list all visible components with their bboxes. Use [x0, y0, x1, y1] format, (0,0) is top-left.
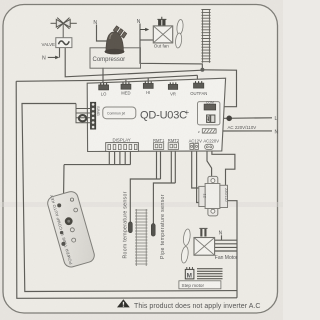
wire AC220V right loop	[212, 150, 235, 186]
evaporator coil	[135, 209, 148, 266]
wire valve left pin	[59, 48, 61, 58]
label Step motor	[179, 281, 221, 289]
valve 4-way symbol	[51, 18, 77, 38]
wire bus drop OUTFAN	[196, 75, 198, 83]
compressor label box	[90, 48, 141, 68]
wire bus drop MED	[125, 80, 127, 85]
connector MED	[121, 82, 131, 96]
node N valve arrow	[42, 55, 59, 61]
fan motor M1	[194, 238, 215, 256]
wire AC220V to transformer tab	[207, 150, 212, 177]
wire transformer to fan bus	[228, 201, 238, 298]
wire fan motor ribbon	[215, 240, 237, 251]
connector Common jxt	[103, 107, 136, 119]
connector AC220V	[203, 138, 219, 149]
control board U1 QD-U03C+	[87, 78, 225, 151]
connector RMT2	[168, 138, 180, 150]
connector LO	[99, 83, 109, 97]
terminal L circle	[226, 116, 232, 122]
connector J6 pin header	[90, 102, 95, 129]
connector VR	[168, 82, 177, 96]
wire top bus	[16, 75, 197, 81]
node junction A	[200, 68, 204, 72]
wire left inner loop	[22, 104, 237, 292]
wire valve N run	[65, 48, 202, 77]
wire out fan loop	[140, 24, 202, 70]
transformer T1	[199, 176, 228, 216]
jumper harness loop	[76, 104, 90, 123]
display panel assembly	[45, 188, 96, 269]
connector RMT1	[153, 138, 165, 150]
pipe temperature sensor RT2	[151, 194, 166, 259]
connector COM	[204, 101, 216, 110]
scanner band artifact	[0, 202, 283, 207]
display panel LEDs	[57, 198, 77, 246]
capacitor C2 fan	[199, 228, 207, 236]
valve coil box	[56, 38, 72, 48]
wire left outer loop	[16, 81, 237, 298]
wire AC12V to transformer	[192, 150, 199, 203]
capacitor C1 out fan	[157, 17, 166, 26]
wire out fan box feed	[140, 39, 153, 41]
connector HI	[143, 81, 153, 95]
wire RMT2 to pipe sensor	[153, 150, 175, 224]
relay module box	[198, 102, 220, 125]
fan blade out fan	[175, 19, 184, 48]
fuse F1	[207, 115, 215, 122]
connector DISPLAY	[106, 138, 139, 152]
wire display bundle	[64, 152, 131, 194]
wire compressor N	[97, 25, 107, 42]
step motor M3	[185, 267, 222, 279]
warning triangle	[117, 299, 130, 307]
condenser coil	[201, 9, 210, 63]
wire RMT1 to room sensor	[130, 150, 160, 223]
wire N terminal	[216, 130, 272, 132]
room temperature sensor RT1	[123, 191, 133, 258]
filter FL1 hatched	[198, 129, 216, 134]
node N out fan	[137, 19, 150, 31]
wire compressor to LO	[102, 68, 104, 85]
wire fan motor N tick	[221, 235, 223, 240]
wire L terminal	[216, 117, 272, 120]
fan blade indoor	[180, 229, 191, 264]
connector AC12V	[189, 138, 202, 149]
out fan motor M2	[153, 26, 172, 43]
wire junction to COM	[202, 70, 236, 107]
compressor Q1	[105, 26, 127, 54]
wire bus drop HI	[147, 78, 149, 84]
connector OUTFAN	[190, 81, 207, 96]
